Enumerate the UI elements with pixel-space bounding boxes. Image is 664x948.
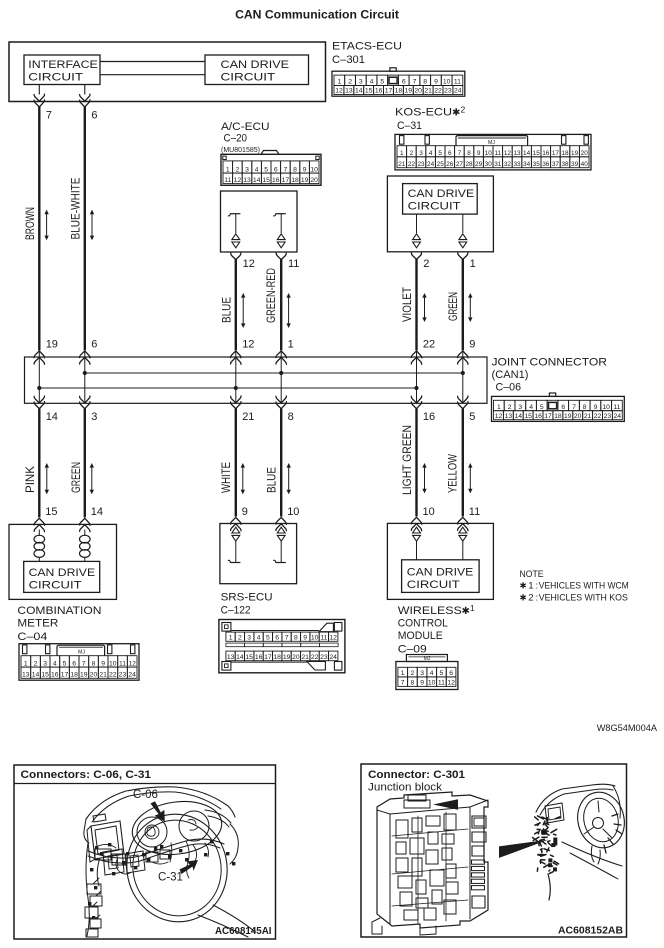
svg-text:7: 7 <box>413 79 417 86</box>
connector crossing joint bottom pin 5 <box>458 396 468 409</box>
wire joint pass-through 3 <box>235 350 237 403</box>
svg-text:✱: ✱ <box>520 581 527 591</box>
svg-text:INTERFACE: INTERFACE <box>28 59 98 71</box>
svg-text:19: 19 <box>283 654 291 661</box>
svg-text:10: 10 <box>310 166 318 173</box>
arrow on LIGHT GREEN wire <box>422 463 426 493</box>
pin number 11 (A/C) <box>288 258 299 270</box>
figure1 title underline <box>14 783 276 785</box>
svg-text:15: 15 <box>524 413 532 420</box>
svg-text:24: 24 <box>454 88 462 95</box>
svg-text:10: 10 <box>109 660 117 667</box>
svg-text:C-06: C-06 <box>133 789 158 801</box>
svg-text:12: 12 <box>447 680 455 687</box>
svg-text:7: 7 <box>572 404 576 411</box>
svg-text:8: 8 <box>411 680 415 687</box>
svg-text:24: 24 <box>614 413 622 420</box>
svg-text:29: 29 <box>475 161 483 168</box>
wire BLUE (joint 8 to SRS 10) <box>280 408 282 516</box>
svg-text:15: 15 <box>245 654 253 661</box>
svg-text:✱: ✱ <box>520 592 527 602</box>
pin number 15 (lower units) <box>45 506 57 518</box>
ETACS-ECU unit box <box>9 42 326 102</box>
connector crossing joint top pin 12 <box>231 351 241 364</box>
wire joint pass-through 2 <box>84 350 86 403</box>
shield marks SRS pin10 <box>277 527 285 562</box>
svg-text:2: 2 <box>236 166 240 173</box>
svg-text:11: 11 <box>288 258 299 270</box>
shield marks KOS pin1 <box>459 234 467 248</box>
svg-text:CIRCUIT: CIRCUIT <box>407 579 460 591</box>
svg-text:1: 1 <box>226 166 230 173</box>
svg-text:8: 8 <box>288 411 294 423</box>
terminal in SRS pin9 <box>228 560 240 562</box>
svg-text:MJ: MJ <box>78 649 85 655</box>
svg-text:PINK: PINK <box>23 465 37 493</box>
pin number 1 (joint top) <box>288 339 294 351</box>
svg-text:8: 8 <box>423 79 427 86</box>
can drive circuit block (KOS) <box>403 184 478 215</box>
svg-text:8: 8 <box>583 404 587 411</box>
svg-text:W8G54M004A: W8G54M004A <box>597 723 658 733</box>
svg-text:1: 1 <box>338 79 342 86</box>
wire GREEN-RED (A/C 11 to joint 1) <box>280 259 282 351</box>
svg-text:1: 1 <box>229 635 233 642</box>
svg-text:7: 7 <box>285 635 289 642</box>
svg-text:22: 22 <box>109 672 117 679</box>
wire BROWN (ETACS 7 to joint 19) <box>38 107 40 351</box>
svg-text:11: 11 <box>469 506 480 518</box>
svg-text:2 :: 2 : <box>528 592 538 603</box>
connector crossing joint bottom pin 14 <box>34 396 44 409</box>
inductor coil meter pin15 <box>34 530 45 562</box>
svg-text:23: 23 <box>320 654 328 661</box>
svg-text:18: 18 <box>395 88 403 95</box>
svg-text:23: 23 <box>444 88 452 95</box>
svg-text:2: 2 <box>410 150 414 157</box>
svg-text:2: 2 <box>348 79 352 86</box>
svg-text:C–122: C–122 <box>221 605 251 617</box>
svg-text:21: 21 <box>584 413 592 420</box>
shield marks A/C pin11 <box>277 234 285 248</box>
connector crossing joint top pin 19 <box>34 351 44 364</box>
arrow on BROWN wire <box>44 210 48 241</box>
svg-text:5: 5 <box>440 670 444 677</box>
svg-text:21: 21 <box>301 654 309 661</box>
shield marks SRS pin9 <box>232 527 240 562</box>
connector crossing ETACS pin 6 <box>80 94 90 107</box>
svg-text:4: 4 <box>257 635 261 642</box>
svg-text:14: 14 <box>253 177 261 184</box>
terminal in A/C-ECU pin11 <box>274 214 286 233</box>
svg-text:17: 17 <box>544 413 552 420</box>
svg-text:WHITE: WHITE <box>219 462 233 493</box>
svg-text:COMBINATION: COMBINATION <box>17 605 101 617</box>
svg-text:15: 15 <box>41 672 49 679</box>
pin number 14 (joint bottom) <box>46 411 58 423</box>
svg-text:14: 14 <box>32 672 40 679</box>
svg-text:1: 1 <box>470 603 475 613</box>
svg-text:CAN DRIVE: CAN DRIVE <box>29 567 96 579</box>
svg-text:3: 3 <box>419 150 423 157</box>
svg-text:CAN Communication Circuit: CAN Communication Circuit <box>235 8 399 22</box>
svg-text:12: 12 <box>495 413 503 420</box>
svg-text:YELLOW: YELLOW <box>445 454 459 493</box>
svg-text:33: 33 <box>513 161 521 168</box>
WIRELESS CONTROL MODULE unit box <box>387 523 493 599</box>
connector crossing ETACS pin 7 <box>34 94 44 107</box>
svg-text:20: 20 <box>574 413 582 420</box>
svg-text:5: 5 <box>438 150 442 157</box>
label GREEN (meter) <box>69 462 83 493</box>
svg-text:1 :: 1 : <box>528 581 538 592</box>
pin number 12 (A/C) <box>243 258 255 270</box>
svg-text:21: 21 <box>424 88 432 95</box>
arrow on BLUE wire <box>241 293 245 328</box>
connector crossing joint top pin 9 <box>458 351 468 364</box>
svg-text:10: 10 <box>443 79 451 86</box>
svg-text:27: 27 <box>456 161 464 168</box>
pin number 11 (lower units) <box>469 506 480 518</box>
drawing code W8G54M004A <box>597 723 658 733</box>
pin number 7 <box>46 110 52 122</box>
svg-text:15: 15 <box>365 88 373 95</box>
svg-text:17: 17 <box>552 150 560 157</box>
can drive circuit block (WCM) <box>402 560 480 593</box>
figure1 label C-31 with arrow <box>158 860 198 884</box>
svg-text:21: 21 <box>242 411 254 423</box>
svg-text:3: 3 <box>359 79 363 86</box>
svg-text:11: 11 <box>613 404 620 411</box>
svg-text:3: 3 <box>247 635 251 642</box>
svg-text:LIGHT GREEN: LIGHT GREEN <box>400 425 414 495</box>
svg-text:13: 13 <box>513 150 521 157</box>
svg-text:7: 7 <box>284 166 288 173</box>
label VIOLET <box>400 287 414 322</box>
svg-text:5: 5 <box>266 635 270 642</box>
svg-text:1: 1 <box>401 670 405 677</box>
svg-text:15: 15 <box>262 177 270 184</box>
terminal in A/C-ECU pin12 <box>228 214 240 233</box>
svg-text:2: 2 <box>508 404 512 411</box>
svg-text:MJ: MJ <box>488 140 495 146</box>
svg-text:35: 35 <box>533 161 541 168</box>
svg-text:VEHICLES WITH WCM: VEHICLES WITH WCM <box>539 581 629 592</box>
label LIGHT GREEN <box>400 425 414 495</box>
svg-text:7: 7 <box>401 680 405 687</box>
pin number 22 (joint top) <box>423 339 435 351</box>
svg-text:7: 7 <box>82 660 86 667</box>
svg-text:10: 10 <box>485 150 493 157</box>
arrow on GREEN wire (meter) <box>90 463 94 494</box>
svg-text:17: 17 <box>385 88 393 95</box>
figure connector C-301 frame <box>361 764 627 937</box>
svg-text:8: 8 <box>92 660 96 667</box>
svg-text:(CAN1): (CAN1) <box>492 369 529 381</box>
svg-text:24: 24 <box>128 672 136 679</box>
wire KOS pin1 internal <box>462 214 464 233</box>
svg-text:37: 37 <box>552 161 560 168</box>
svg-text:5: 5 <box>264 166 268 173</box>
arrow on GREEN-RED wire <box>286 293 290 328</box>
figure1 dashboard sketch <box>84 787 254 937</box>
svg-text:C–04: C–04 <box>17 631 47 643</box>
svg-text:14: 14 <box>523 150 531 157</box>
svg-text:CIRCUIT: CIRCUIT <box>28 71 83 83</box>
wire joint pass-through 4 <box>280 350 282 403</box>
wire joint pass-through 6 <box>462 350 464 403</box>
svg-text:6: 6 <box>91 339 97 351</box>
note text <box>520 569 629 604</box>
wire VIOLET (KOS 2 to joint 22) <box>415 259 417 351</box>
svg-text:✱: ✱ <box>452 107 460 118</box>
joint connector label <box>492 356 608 393</box>
svg-text:12: 12 <box>234 177 242 184</box>
junction dot bus-L wire5 <box>414 386 418 390</box>
svg-text:10: 10 <box>311 635 319 642</box>
label WHITE <box>219 462 233 493</box>
svg-text:8: 8 <box>293 166 297 173</box>
svg-text:10: 10 <box>287 506 299 518</box>
svg-text:5: 5 <box>63 660 67 667</box>
svg-text:13: 13 <box>227 654 235 661</box>
svg-text:14: 14 <box>515 413 523 420</box>
svg-text:19: 19 <box>571 150 579 157</box>
connector C-09 <box>396 655 458 690</box>
svg-text:9: 9 <box>477 150 481 157</box>
svg-text:20: 20 <box>310 177 318 184</box>
svg-text:1: 1 <box>470 258 476 270</box>
svg-text:18: 18 <box>554 413 562 420</box>
shield marks A/C pin12 <box>232 234 240 248</box>
connector crossing joint bottom pin 3 <box>80 396 90 409</box>
wire WHITE (joint 21 to SRS 9) <box>235 408 237 516</box>
connector fork KOS pin 2 <box>412 253 422 259</box>
connector C-122 <box>219 620 345 673</box>
svg-text:15: 15 <box>45 506 57 518</box>
svg-text:GREEN: GREEN <box>69 462 83 493</box>
svg-text:12: 12 <box>243 258 255 270</box>
label BLUE-WHITE <box>69 178 83 240</box>
svg-text:1: 1 <box>400 150 404 157</box>
connector crossing joint top pin 1 <box>276 351 286 364</box>
svg-text:40: 40 <box>581 161 589 168</box>
connector crossing SRS pin 10 <box>276 517 286 530</box>
svg-text:3: 3 <box>91 411 97 423</box>
node CAN-L bus <box>39 387 416 389</box>
svg-text:20: 20 <box>292 654 300 661</box>
svg-text:1: 1 <box>497 404 501 411</box>
connector C-301 <box>332 68 465 96</box>
joint connector box <box>25 357 488 403</box>
svg-text:17: 17 <box>61 672 69 679</box>
figure2 code AC608152AB <box>558 926 623 937</box>
figure2 dashboard sketch <box>533 784 631 900</box>
svg-text:NOTE: NOTE <box>520 569 544 580</box>
pin number 19 (joint top) <box>46 339 58 351</box>
svg-text:26: 26 <box>446 161 454 168</box>
can drive circuit block (ETACS) <box>205 55 309 85</box>
svg-text:22: 22 <box>311 654 319 661</box>
arrow on BLUE wire (SRS) <box>287 463 291 494</box>
svg-text:2: 2 <box>238 635 242 642</box>
label BROWN <box>23 207 37 240</box>
connector crossing joint bottom pin 21 <box>231 396 241 409</box>
svg-text:39: 39 <box>571 161 579 168</box>
svg-text:BLUE-WHITE: BLUE-WHITE <box>69 178 83 240</box>
svg-text:24: 24 <box>329 654 337 661</box>
shield marks KOS pin2 <box>413 234 421 248</box>
svg-text:31: 31 <box>494 161 502 168</box>
svg-text:VIOLET: VIOLET <box>400 287 414 322</box>
svg-text:34: 34 <box>523 161 531 168</box>
A/C-ECU unit box <box>221 191 298 252</box>
connector crossing joint bottom pin 8 <box>276 396 286 409</box>
svg-text:15: 15 <box>533 150 541 157</box>
svg-text:16: 16 <box>51 672 59 679</box>
label BLUE <box>219 297 233 323</box>
svg-text:16: 16 <box>542 150 550 157</box>
svg-text:23: 23 <box>417 161 425 168</box>
svg-text:GREEN-RED: GREEN-RED <box>264 268 278 323</box>
svg-text:KOS-ECU: KOS-ECU <box>395 106 452 118</box>
wire PINK (joint 14 to meter 15) <box>38 408 40 517</box>
KOS-ECU label <box>395 104 466 132</box>
arrow on VIOLET wire <box>422 293 426 322</box>
svg-text:4: 4 <box>255 166 259 173</box>
figure2 title <box>368 769 465 794</box>
svg-text:18: 18 <box>291 177 299 184</box>
svg-text:16: 16 <box>255 654 263 661</box>
pin number 9 (joint top) <box>469 339 475 351</box>
svg-text:5: 5 <box>540 404 544 411</box>
wire YELLOW (joint 5 to WCM 11) <box>462 408 464 516</box>
svg-text:2: 2 <box>461 104 466 114</box>
svg-text:16: 16 <box>272 177 280 184</box>
svg-text:22: 22 <box>594 413 602 420</box>
svg-text:11: 11 <box>320 635 327 642</box>
svg-text:9: 9 <box>420 680 424 687</box>
svg-text:4: 4 <box>529 404 533 411</box>
junction dot bus-L wire3 <box>234 386 238 390</box>
svg-text:CAN DRIVE: CAN DRIVE <box>407 566 474 578</box>
label GREEN (KOS) <box>446 292 460 321</box>
pin number 10 (lower units) <box>423 506 435 518</box>
svg-text:9: 9 <box>303 166 307 173</box>
svg-text:14: 14 <box>91 506 103 518</box>
ETACS-ECU label <box>332 41 402 67</box>
connector C-20 <box>221 151 321 186</box>
svg-text:Connector: C-301: Connector: C-301 <box>368 769 465 781</box>
svg-text:22: 22 <box>434 88 442 95</box>
connector crossing meter pin 15 <box>34 518 44 531</box>
svg-text:19: 19 <box>46 339 58 351</box>
svg-text:18: 18 <box>273 654 281 661</box>
svg-text:6: 6 <box>402 79 406 86</box>
can drive circuit block (meter) <box>24 561 100 592</box>
svg-text:BLUE: BLUE <box>264 467 278 493</box>
svg-text:6: 6 <box>561 404 565 411</box>
svg-text:WIRELESS: WIRELESS <box>398 605 462 617</box>
figure1 title <box>21 769 152 781</box>
svg-text:13: 13 <box>243 177 251 184</box>
svg-text:17: 17 <box>282 177 290 184</box>
svg-text:13: 13 <box>22 672 30 679</box>
interface circuit block <box>24 55 100 85</box>
svg-text:30: 30 <box>485 161 493 168</box>
arrow on PINK wire <box>45 463 49 494</box>
svg-text:16: 16 <box>375 88 383 95</box>
svg-text:10: 10 <box>428 680 436 687</box>
pin number 2 (KOS) <box>423 258 429 270</box>
svg-text:6: 6 <box>449 670 453 677</box>
svg-text:✱: ✱ <box>462 606 470 617</box>
svg-text:1: 1 <box>288 339 294 351</box>
svg-text:19: 19 <box>301 177 309 184</box>
connector fork A/C pin 12 <box>231 253 241 259</box>
connector C-06 <box>492 393 625 421</box>
svg-text:5: 5 <box>469 411 475 423</box>
SRS-ECU unit box <box>220 524 297 584</box>
figure connectors C-06 C-31 frame <box>14 765 276 939</box>
svg-text:7: 7 <box>458 150 462 157</box>
svg-text:7: 7 <box>46 110 52 122</box>
wire joint pass-through 5 <box>416 350 418 403</box>
junction dot bus-L wire1 <box>37 386 41 390</box>
svg-text:28: 28 <box>465 161 473 168</box>
svg-text:12: 12 <box>335 88 343 95</box>
KOS-ECU unit box <box>387 176 493 252</box>
svg-text:2: 2 <box>411 670 415 677</box>
svg-text:11: 11 <box>438 680 445 687</box>
wire KOS pin2 internal <box>416 214 418 233</box>
wire BLUE (A/C 12 to joint 12) <box>235 259 237 351</box>
svg-text:18: 18 <box>561 150 569 157</box>
connector crossing WCM pin 10 <box>411 517 421 530</box>
svg-text:A/C-ECU: A/C-ECU <box>221 121 270 133</box>
connector crossing joint bottom pin 16 <box>411 396 421 409</box>
svg-text:SRS-ECU: SRS-ECU <box>221 591 273 603</box>
svg-text:9: 9 <box>242 506 248 518</box>
svg-text:5: 5 <box>380 79 384 86</box>
svg-text:C-31: C-31 <box>158 872 183 884</box>
svg-text:9: 9 <box>594 404 598 411</box>
svg-text:12: 12 <box>329 635 337 642</box>
pin number 1 (KOS) <box>470 258 476 270</box>
pin number 9 (lower units) <box>242 506 248 518</box>
svg-text:11: 11 <box>119 660 126 667</box>
svg-text:3: 3 <box>420 670 424 677</box>
arrow on BLUE-WHITE wire <box>90 210 94 241</box>
figure1 code AC608145AI <box>215 926 272 937</box>
svg-text:21: 21 <box>398 161 406 168</box>
svg-text:C–20: C–20 <box>224 133 248 145</box>
wire joint pass-through 1 <box>38 350 40 403</box>
svg-text:38: 38 <box>561 161 569 168</box>
WIRELESS CONTROL MODULE label <box>398 603 475 655</box>
svg-text:11: 11 <box>224 177 231 184</box>
svg-text:19: 19 <box>80 672 88 679</box>
svg-text:11: 11 <box>494 150 501 157</box>
svg-text:C–31: C–31 <box>397 120 422 132</box>
label YELLOW <box>445 454 459 493</box>
svg-text:21: 21 <box>99 672 107 679</box>
title <box>235 8 399 22</box>
svg-text:3: 3 <box>518 404 522 411</box>
junction dot bus-H wire2 <box>83 371 87 375</box>
svg-text:CIRCUIT: CIRCUIT <box>221 71 276 83</box>
svg-text:9: 9 <box>101 660 105 667</box>
